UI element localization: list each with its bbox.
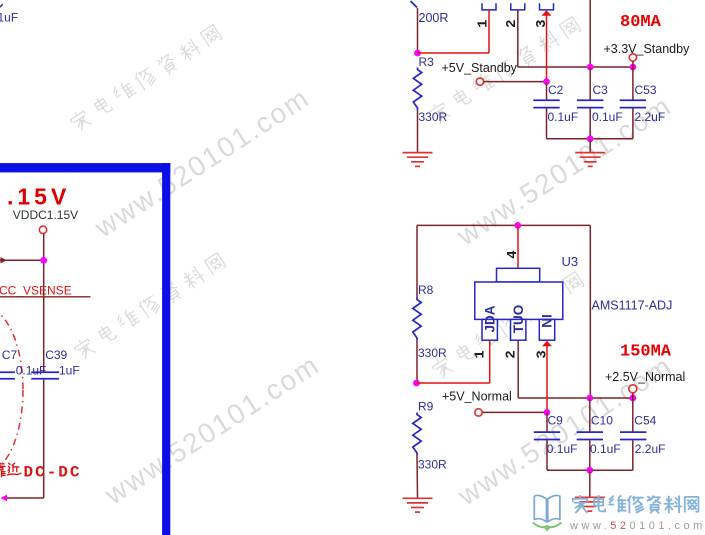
svg-text:200R: 200R (419, 11, 449, 25)
svg-text:C54: C54 (634, 413, 656, 427)
svg-text:0.1uF: 0.1uF (548, 110, 579, 124)
svg-text:R3: R3 (419, 55, 435, 69)
svg-text:0.1uF: 0.1uF (16, 364, 47, 378)
svg-text:C10: C10 (591, 413, 613, 427)
svg-text:330R: 330R (418, 458, 447, 472)
svg-text:1: 1 (473, 350, 489, 358)
svg-text:C7: C7 (2, 348, 18, 362)
svg-text:C9: C9 (548, 413, 564, 427)
svg-text:4: 4 (505, 250, 521, 258)
svg-text:C39: C39 (45, 348, 67, 362)
svg-text:3: 3 (534, 350, 550, 358)
svg-text:+2.5V_Normal: +2.5V_Normal (605, 370, 685, 384)
svg-text:+5V_Standby: +5V_Standby (442, 61, 518, 75)
svg-text:R8: R8 (418, 283, 434, 297)
svg-text:+5V_Normal: +5V_Normal (442, 390, 512, 404)
svg-text:R9: R9 (418, 400, 434, 414)
svg-text:AMS1117-ADJ: AMS1117-ADJ (592, 299, 673, 313)
svg-text:TUO: TUO (511, 305, 526, 334)
svg-text:VDDC1.15V: VDDC1.15V (13, 208, 78, 222)
svg-text:U3: U3 (562, 254, 579, 269)
svg-text:2.2uF: 2.2uF (635, 110, 666, 124)
svg-text:0.1uF: 0.1uF (592, 110, 623, 124)
svg-text:2.2uF: 2.2uF (635, 442, 666, 456)
svg-text:www.520101.com: www.520101.com (569, 520, 705, 532)
svg-text:1uF: 1uF (59, 364, 80, 378)
svg-text:C2: C2 (548, 83, 564, 97)
svg-text:150MA: 150MA (620, 343, 672, 362)
svg-text:C3: C3 (593, 83, 609, 97)
svg-text:JDA: JDA (482, 305, 497, 332)
svg-text:DC-DC: DC-DC (24, 464, 82, 482)
svg-text:CC_VSENSE: CC_VSENSE (0, 284, 72, 298)
svg-text:0.1uF: 0.1uF (590, 442, 621, 456)
svg-text:330R: 330R (418, 346, 447, 360)
svg-text:0.1uF: 0.1uF (547, 442, 578, 456)
svg-text:3: 3 (534, 19, 550, 27)
svg-text:330R: 330R (419, 110, 448, 124)
svg-text:.15V: .15V (7, 184, 70, 210)
svg-text:+3.3V_Standby: +3.3V_Standby (604, 42, 691, 56)
svg-text:2: 2 (503, 350, 519, 358)
svg-text:NI: NI (540, 314, 555, 328)
svg-text:C53: C53 (635, 83, 657, 97)
svg-text:1uF: 1uF (0, 11, 18, 25)
svg-text:80MA: 80MA (620, 13, 662, 32)
